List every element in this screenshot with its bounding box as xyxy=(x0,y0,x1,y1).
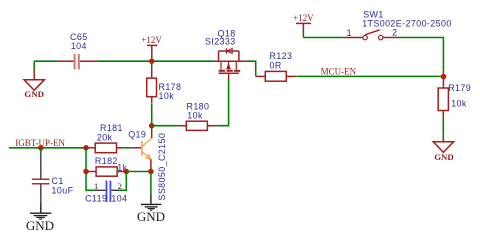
capacitor C65 xyxy=(59,32,97,70)
junction node MCU-EN / R179 xyxy=(441,74,447,80)
svg-text:+12V: +12V xyxy=(141,35,162,45)
svg-text:10k: 10k xyxy=(187,111,203,121)
svg-text:R182: R182 xyxy=(95,156,118,166)
wire +12V to SW1 xyxy=(303,37,343,39)
svg-text:1: 1 xyxy=(94,182,98,191)
wire C1 to ground xyxy=(40,199,42,203)
svg-text:R179: R179 xyxy=(448,83,471,93)
wire SW1 to right rail xyxy=(398,38,443,77)
junction node R178/R180/Q19 collector xyxy=(149,123,155,129)
svg-text:20k: 20k xyxy=(97,133,113,143)
resistor R180 xyxy=(178,101,217,130)
svg-text:R181: R181 xyxy=(100,123,123,133)
svg-text:GND: GND xyxy=(24,89,44,99)
svg-text:1: 1 xyxy=(347,28,352,38)
wire R178 to node xyxy=(151,104,153,126)
ground GND (right triangle flag) xyxy=(433,136,454,162)
transistor Q19 SS8050_C2150 xyxy=(128,126,167,201)
wire R180 to Q18 gate xyxy=(217,80,229,125)
svg-text:+12V: +12V xyxy=(293,13,314,23)
wire emitter to ground xyxy=(150,172,152,195)
svg-text:10uF: 10uF xyxy=(52,186,74,196)
svg-text:GND: GND xyxy=(434,152,454,162)
junction node R182 left xyxy=(83,169,89,175)
wire R182 to emitter node xyxy=(126,171,151,173)
wire C119 branch right xyxy=(119,172,126,191)
switch SW1 1TS002E-2700-2500 xyxy=(343,9,451,40)
svg-text:Q19: Q19 xyxy=(128,129,146,139)
svg-text:GND: GND xyxy=(137,209,165,224)
svg-text:SI2333: SI2333 xyxy=(205,37,236,47)
svg-text:MCU-EN: MCU-EN xyxy=(321,66,357,76)
svg-text:SS8050_C2150: SS8050_C2150 xyxy=(157,133,167,201)
junction node +12V rail xyxy=(149,58,155,64)
svg-text:GND: GND xyxy=(26,218,54,233)
resistor R179 xyxy=(438,76,471,117)
power flag +12V (right) xyxy=(293,13,314,38)
transistor Q18 (P-MOSFET SI2333) xyxy=(205,28,247,80)
svg-text:R123: R123 xyxy=(270,51,293,61)
svg-text:10k: 10k xyxy=(159,91,175,101)
wire top rail middle xyxy=(97,60,214,62)
svg-text:104: 104 xyxy=(111,194,127,204)
junction node C1 xyxy=(38,145,44,151)
junction node emitter xyxy=(148,169,154,175)
svg-text:2: 2 xyxy=(392,27,397,37)
ground GND (earth symbol under Q19) xyxy=(137,194,165,224)
svg-text:1TS002E-2700-2500: 1TS002E-2700-2500 xyxy=(362,18,452,28)
wire R179 to ground xyxy=(442,117,444,136)
wire MCU-EN net xyxy=(296,75,443,77)
svg-text:0R: 0R xyxy=(270,61,282,71)
ground GND (top-left triangle flag) xyxy=(24,61,44,99)
wire C119 branch left xyxy=(86,172,94,191)
svg-text:104: 104 xyxy=(71,41,87,51)
resistor R182 xyxy=(86,156,128,176)
resistor R123 xyxy=(256,51,297,81)
capacitor C1 xyxy=(32,148,74,199)
wire top rail left segment xyxy=(34,60,59,62)
wire IGBT-UP-EN net xyxy=(9,147,86,149)
junction node R181/R182 branch xyxy=(83,145,89,151)
svg-text:2: 2 xyxy=(118,182,122,191)
power flag +12V (left) xyxy=(141,35,162,61)
resistor R181 xyxy=(86,123,141,153)
svg-text:C119: C119 xyxy=(85,194,107,204)
wire Q18 drain to R123 xyxy=(247,61,256,76)
capacitor C119 xyxy=(85,181,127,204)
wire branch down to R182 xyxy=(85,148,87,172)
junction node R182 right xyxy=(124,169,130,175)
svg-text:10k: 10k xyxy=(451,99,467,109)
wire node to R180 xyxy=(152,125,178,127)
resistor R178 xyxy=(147,61,182,103)
ground GND (earth symbol under C1) xyxy=(26,203,54,233)
